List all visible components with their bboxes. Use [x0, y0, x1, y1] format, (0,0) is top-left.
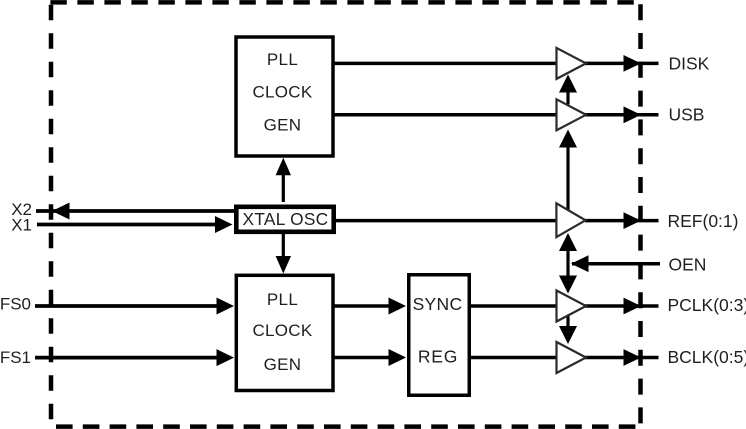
wire PLL2 to REG — [333, 356, 401, 360]
arrowhead into SYNC — [389, 298, 407, 315]
arrowhead FS1 — [217, 349, 235, 366]
svg-text:PLL: PLL — [267, 50, 298, 69]
svg-text:XTAL OSC: XTAL OSC — [243, 209, 329, 229]
wire BCLK output — [585, 356, 659, 360]
arrowhead OEN into OE line — [571, 255, 589, 272]
svg-text:DISK: DISK — [669, 53, 710, 73]
XTAL OSC box — [236, 207, 333, 232]
PLL clock gen box (bottom) U2 — [236, 275, 333, 390]
wire XTAL to REF buffer — [335, 219, 557, 223]
svg-text:SYNC: SYNC — [413, 294, 463, 314]
OE vertical line REF-PCLK — [566, 248, 569, 279]
arrowhead down into PLL2 — [276, 256, 291, 274]
arrowhead up to DISK — [559, 75, 577, 93]
wire PLL1 to DISK buffer — [334, 62, 557, 66]
XTAL to PLL2 vertical arrow — [282, 234, 285, 260]
buffer DISK — [557, 48, 587, 79]
arrowhead down to BCLK — [559, 326, 577, 344]
svg-text:GEN: GEN — [264, 355, 302, 374]
svg-text:REG: REG — [418, 347, 458, 367]
wire USB output — [585, 113, 659, 117]
svg-text:PLL: PLL — [267, 290, 298, 309]
svg-text:BCLK(0:5): BCLK(0:5) — [668, 347, 746, 367]
arrowhead BCLK at border — [624, 349, 642, 366]
OE vertical line PCLK-BCLK — [566, 315, 569, 331]
svg-text:FS0: FS0 — [0, 295, 31, 314]
wire REG to BCLK buffer — [470, 356, 557, 360]
svg-text:REF(0:1): REF(0:1) — [668, 211, 739, 231]
buffer REF — [556, 203, 585, 237]
arrowhead USB at border — [624, 106, 642, 123]
wire OEN input — [572, 262, 660, 266]
wire PLL1 to USB buffer — [334, 113, 557, 117]
arrowhead down to PCLK — [559, 276, 577, 294]
svg-text:CLOCK: CLOCK — [252, 83, 312, 102]
arrowhead X1 right — [215, 216, 233, 233]
wire DISK output — [585, 62, 659, 66]
wire PCLK output — [585, 304, 659, 308]
arrowhead up to REF — [559, 233, 577, 251]
wire X1 in — [37, 223, 228, 227]
arrowhead DISK at border — [624, 55, 642, 72]
SYNC REG box — [409, 275, 470, 396]
wire PLL2 to SYNC — [333, 304, 401, 308]
arrowhead into REG — [389, 349, 407, 366]
arrowhead up to USB — [559, 130, 577, 148]
wire X2 out — [36, 209, 236, 213]
arrowhead FS0 — [217, 298, 235, 315]
svg-text:OEN: OEN — [669, 254, 707, 274]
wire REF output — [585, 219, 659, 223]
buffer USB — [557, 99, 587, 130]
PLL clock gen box (top) U1 — [236, 37, 333, 156]
svg-text:X1: X1 — [11, 216, 32, 235]
svg-text:GEN: GEN — [264, 116, 302, 135]
chip boundary dashed border — [50, 2, 642, 427]
wire SYNC to PCLK buffer — [470, 304, 557, 308]
arrowhead up into PLL1 — [276, 158, 291, 176]
wire FS1 — [35, 356, 228, 360]
buffer PCLK — [557, 291, 587, 322]
svg-text:FS1: FS1 — [0, 348, 31, 367]
svg-text:CLOCK: CLOCK — [252, 321, 312, 340]
svg-text:USB: USB — [669, 105, 705, 125]
arrowhead X2 left — [52, 203, 70, 220]
arrowhead REF at border — [624, 212, 642, 229]
arrowhead PCLK at border — [624, 298, 642, 315]
OE vertical line USB-REF — [566, 143, 569, 211]
buffer BCLK — [557, 342, 587, 373]
OE vertical line DISK-USB — [566, 88, 569, 105]
XTAL to PLL1 vertical arrow — [282, 172, 285, 202]
wire FS0 — [35, 304, 228, 308]
svg-text:PCLK(0:3): PCLK(0:3) — [668, 295, 746, 315]
